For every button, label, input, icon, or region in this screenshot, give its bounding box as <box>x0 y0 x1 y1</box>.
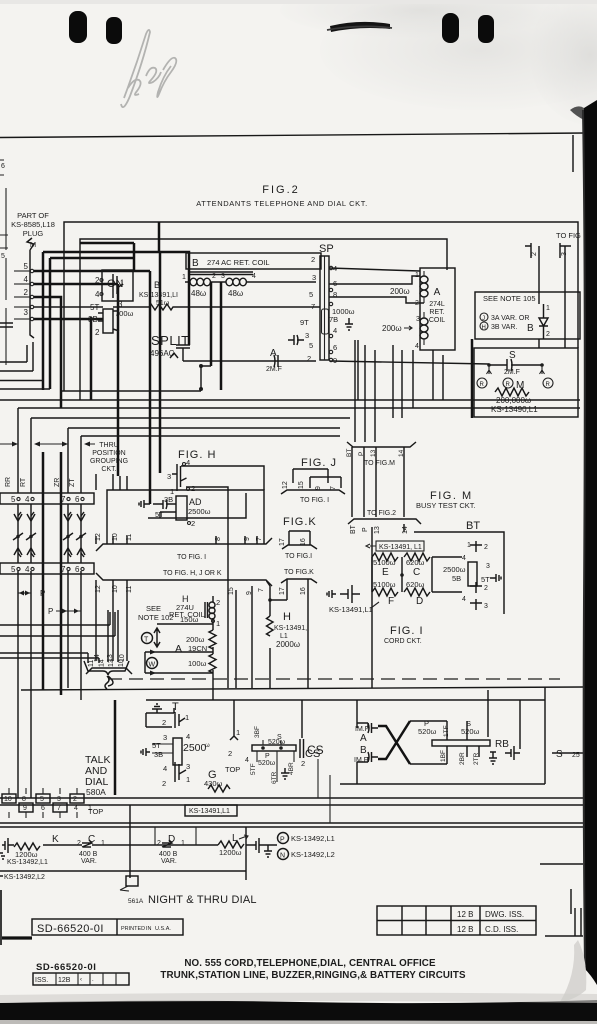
svg-text:15: 15 <box>298 481 305 489</box>
relay AD <box>176 496 187 520</box>
svg-text:1TF: 1TF <box>443 725 450 737</box>
wire: dashed separator <box>108 678 560 680</box>
svg-text:KS-13491,LI: KS-13491,LI <box>139 292 178 299</box>
svg-text:1: 1 <box>546 305 550 312</box>
svg-text:400 B: 400 B <box>159 851 178 858</box>
circle N KS-13492,L2 <box>278 849 289 860</box>
wire: bracket pin2 down <box>538 246 540 304</box>
svg-text:SD-66520-0I: SD-66520-0I <box>36 962 96 973</box>
svg-text:1BF: 1BF <box>440 750 447 762</box>
connector strip 2 <box>0 563 94 574</box>
wire verticals dropping from fig2 <box>357 340 359 400</box>
svg-text:S: S <box>556 749 563 760</box>
svg-text:‹: ‹ <box>80 977 82 983</box>
svg-text:4: 4 <box>252 273 256 280</box>
svg-text:2: 2 <box>311 255 315 264</box>
svg-text:12B: 12B <box>58 977 71 984</box>
svg-text:12 B: 12 B <box>457 910 473 919</box>
svg-text:KS-13492,L2: KS-13492,L2 <box>4 874 45 881</box>
arrow to thru position <box>0 443 95 445</box>
svg-text:7: 7 <box>61 495 66 504</box>
svg-text:1200ω: 1200ω <box>15 850 38 859</box>
wire: plug pin5 right <box>34 271 150 504</box>
svg-text:13: 13 <box>374 526 381 534</box>
svg-text:KS-13490,L1: KS-13490,L1 <box>491 405 538 414</box>
svg-text:100ω: 100ω <box>188 659 207 668</box>
battery right of RB <box>505 700 520 760</box>
inductor A winding2 vertical <box>424 318 428 339</box>
svg-text:1: 1 <box>182 274 186 281</box>
svg-text:2M.F: 2M.F <box>266 366 282 373</box>
svg-text:ATTENDANTS TELEPHONE AND DI: ATTENDANTS TELEPHONE AND DIAL CKT. <box>196 199 368 208</box>
svg-text:5B: 5B <box>452 574 461 583</box>
svg-text:2500ω: 2500ω <box>188 507 211 516</box>
wire H pin1 left <box>157 618 213 630</box>
svg-text:4: 4 <box>163 764 167 773</box>
svg-text:2: 2 <box>73 796 77 803</box>
svg-text:FIG. I: FIG. I <box>390 625 424 637</box>
wire: staircase corner 2 <box>50 258 134 389</box>
svg-text:3: 3 <box>163 733 167 742</box>
svg-text:H: H <box>283 611 291 623</box>
battery K L1 <box>2 838 14 853</box>
ground RB <box>489 752 497 764</box>
svg-text:2: 2 <box>546 331 550 338</box>
svg-text:14: 14 <box>94 654 101 662</box>
connector TO FIG.M bracket <box>347 442 416 457</box>
resistor M 200000 <box>495 388 529 396</box>
ground K <box>0 853 5 859</box>
contact T <box>146 708 185 728</box>
svg-text:DWG. ISS.: DWG. ISS. <box>485 910 524 919</box>
svg-text:48ω: 48ω <box>191 289 206 298</box>
svg-text:FIG. H: FIG. H <box>178 449 216 461</box>
svg-text:PLUG: PLUG <box>23 229 44 238</box>
svg-text:7: 7 <box>311 302 315 311</box>
svg-text:RT: RT <box>20 477 27 487</box>
svg-text:2: 2 <box>77 840 81 847</box>
jack wire ZR <box>67 504 69 688</box>
svg-text:7: 7 <box>57 805 61 812</box>
wire: feed coil box <box>134 222 189 473</box>
svg-text:KS-13491,: KS-13491, <box>274 625 307 632</box>
wire: bus drops into FIG H box <box>96 474 127 490</box>
svg-text:U.S.A.: U.S.A. <box>155 926 171 932</box>
wire CS vertical <box>318 759 330 823</box>
box SEE NOTE 105 <box>475 292 580 339</box>
svg-text:B: B <box>154 280 160 290</box>
svg-text:3BF: 3BF <box>254 726 261 738</box>
connector: plug bracket <box>27 238 34 338</box>
svg-text:A: A <box>360 733 367 744</box>
svg-text:T: T <box>144 637 149 644</box>
svg-text:15: 15 <box>228 587 235 595</box>
svg-text:2000ω: 2000ω <box>276 640 300 649</box>
inductor core bars <box>189 272 253 275</box>
junction dots <box>199 364 203 368</box>
connector fig M top <box>348 519 421 524</box>
coil A 274L RET COIL box <box>420 268 455 350</box>
svg-text:K: K <box>52 834 59 845</box>
wire: fig M to bottom <box>371 527 373 688</box>
svg-text:3: 3 <box>484 603 488 610</box>
svg-text:4: 4 <box>462 596 466 603</box>
svg-text:200ω: 200ω <box>382 324 402 333</box>
ground at AD <box>139 500 150 508</box>
wire: stub at top right <box>572 135 574 172</box>
svg-text:SPLIT: SPLIT <box>151 333 190 348</box>
svg-text:CKT.: CKT. <box>101 466 116 473</box>
svg-text:NIGHT & THRU DIAL: NIGHT & THRU DIAL <box>148 894 257 906</box>
svg-text:200ω: 200ω <box>186 635 205 644</box>
wire: plug pin4 right down <box>34 284 118 476</box>
svg-text:3: 3 <box>486 563 490 570</box>
svg-text:3B: 3B <box>154 750 163 759</box>
svg-text:NO. 555 CORD,TELEPHONE,DIAL, C: NO. 555 CORD,TELEPHONE,DIAL, CENTRAL OFF… <box>184 958 436 969</box>
svg-text:VAR.: VAR. <box>81 858 97 865</box>
svg-text:TRUNK,STATION LINE, BUZZER,RIN: TRUNK,STATION LINE, BUZZER,RINGING,& BAT… <box>160 970 466 981</box>
svg-text:P: P <box>48 607 53 616</box>
boxed label KS-13491,L1 <box>185 805 237 816</box>
wire: staircase corner 1 <box>43 252 134 690</box>
svg-text:3: 3 <box>167 472 171 481</box>
ground at 2500 <box>141 748 150 756</box>
wire AD to box <box>148 493 246 518</box>
svg-text:200ω: 200ω <box>390 287 410 296</box>
capacitor near SP <box>288 335 304 345</box>
flat resistor 520 P S <box>252 745 296 751</box>
svg-text:PRINTED: PRINTED <box>121 926 145 932</box>
wire left drop to 580A <box>114 700 117 795</box>
svg-text:13: 13 <box>370 449 377 457</box>
svg-text:2: 2 <box>484 585 488 592</box>
svg-text:AD: AD <box>189 497 202 507</box>
svg-text:520ω: 520ω <box>418 727 437 736</box>
svg-text:6: 6 <box>75 495 80 504</box>
svg-text:520ω: 520ω <box>268 739 286 746</box>
pin 1 <box>14 306 30 308</box>
svg-text:5T: 5T <box>152 741 161 750</box>
svg-text:520ω: 520ω <box>258 760 276 767</box>
svg-text:14: 14 <box>398 449 405 457</box>
svg-text:3: 3 <box>221 273 225 280</box>
svg-text:VAR.: VAR. <box>161 858 177 865</box>
svg-text:6: 6 <box>333 343 337 352</box>
svg-text:4: 4 <box>415 343 419 350</box>
svg-text:P: P <box>358 452 365 456</box>
svg-text:A: A <box>434 287 441 298</box>
svg-text:8: 8 <box>22 796 26 803</box>
svg-text:5: 5 <box>11 495 16 504</box>
svg-text:IN: IN <box>146 926 152 932</box>
wire: feed to ON <box>80 243 134 271</box>
varistor diode <box>539 318 548 326</box>
battery and ground left <box>340 585 360 603</box>
svg-text:SEE: SEE <box>146 604 161 613</box>
connector fig H bottom bracket <box>96 538 272 551</box>
svg-text:5T: 5T <box>90 303 99 312</box>
svg-text:RET.: RET. <box>429 309 444 316</box>
jack wire ZT <box>80 504 82 700</box>
binder hole 3 <box>442 13 459 43</box>
svg-text:2: 2 <box>162 718 166 727</box>
svg-text:5100ω: 5100ω <box>373 558 396 567</box>
svg-text:FIG.2: FIG.2 <box>262 184 300 196</box>
svg-text:CS: CS <box>305 748 320 760</box>
svg-text:P: P <box>265 753 270 760</box>
svg-text:E: E <box>382 567 389 578</box>
svg-text:N: N <box>280 853 285 860</box>
svg-text:POSITION: POSITION <box>92 450 125 457</box>
meter W circle <box>147 658 158 669</box>
svg-text:580A: 580A <box>86 787 106 797</box>
svg-text:TOP: TOP <box>88 807 103 816</box>
svg-text:TO FIG.M: TO FIG.M <box>364 460 395 467</box>
meter circles R M R R <box>487 365 545 374</box>
svg-text:FIG. J: FIG. J <box>301 457 337 469</box>
svg-text:5: 5 <box>1 253 5 260</box>
SP pin circles <box>329 266 332 269</box>
SD-66520-01 box <box>32 919 183 935</box>
svg-text:KS-13492,L1: KS-13492,L1 <box>7 859 48 866</box>
svg-text:3B: 3B <box>164 495 173 504</box>
spring contacts row3 <box>14 548 85 557</box>
svg-text:3: 3 <box>416 316 420 323</box>
svg-text:3B VAR.: 3B VAR. <box>491 324 517 331</box>
svg-text:1: 1 <box>216 619 220 628</box>
svg-text:2: 2 <box>228 749 232 758</box>
relay SP contact column <box>320 256 329 360</box>
svg-text:BT: BT <box>350 524 357 534</box>
ground small at 4BR <box>281 768 289 779</box>
svg-text:7: 7 <box>258 588 265 592</box>
svg-text:2500ω: 2500ω <box>443 565 466 574</box>
svg-text:3: 3 <box>118 300 123 309</box>
svg-text:RB: RB <box>495 739 509 750</box>
svg-text:4: 4 <box>25 495 30 504</box>
svg-text:150ω: 150ω <box>180 615 199 624</box>
svg-text:TO FIG.I: TO FIG.I <box>285 553 312 560</box>
svg-text:4BR: 4BR <box>288 762 295 775</box>
svg-text:5T: 5T <box>481 575 490 584</box>
wire: plug pin3 <box>34 318 103 321</box>
svg-text:2: 2 <box>95 328 100 337</box>
svg-text:ω: ω <box>205 743 210 749</box>
svg-text:5: 5 <box>309 341 313 350</box>
svg-text:TO FIG.2: TO FIG.2 <box>367 510 396 517</box>
svg-text:4: 4 <box>333 326 337 335</box>
capacitor at AD <box>153 500 176 509</box>
jack wire RT <box>30 504 32 798</box>
inductor winding 1 <box>190 278 210 282</box>
binder hole 4 <box>478 15 494 43</box>
connector fig J <box>293 469 341 488</box>
svg-text:5: 5 <box>24 262 29 271</box>
svg-text:4: 4 <box>24 275 29 284</box>
svg-text:L1: L1 <box>280 633 288 640</box>
ink streak top middle <box>330 22 390 32</box>
left edge marks <box>0 890 2 945</box>
svg-text:2: 2 <box>191 484 195 493</box>
svg-text:1: 1 <box>181 840 185 847</box>
svg-text:W: W <box>149 662 156 669</box>
svg-text:13: 13 <box>107 654 114 662</box>
svg-text:TO FIG.K: TO FIG.K <box>284 569 314 576</box>
svg-text:GROUPING: GROUPING <box>90 458 128 465</box>
resistor E 5100 <box>372 553 398 561</box>
svg-text:4: 4 <box>462 555 466 562</box>
wire: plug pin2 <box>34 297 61 695</box>
svg-text:4: 4 <box>74 805 78 812</box>
svg-text:KS-13492,L2: KS-13492,L2 <box>291 850 335 859</box>
coil B box 274 AC RET COIL <box>186 253 321 269</box>
wire fig H contact right <box>181 466 264 490</box>
svg-text:1: 1 <box>185 713 189 722</box>
svg-text:T: T <box>172 701 179 713</box>
svg-text:ISS.: ISS. <box>35 977 48 984</box>
svg-text:6: 6 <box>1 163 5 170</box>
thick verticals coil pins down <box>210 282 213 366</box>
svg-text:1200ω: 1200ω <box>219 848 242 857</box>
svg-text:COIL: COIL <box>429 317 445 324</box>
svg-text:P: P <box>40 589 45 598</box>
svg-text:CORD CKT.: CORD CKT. <box>384 638 422 645</box>
svg-text:5: 5 <box>309 290 313 299</box>
svg-text:TO FIG. I: TO FIG. I <box>177 554 206 561</box>
svg-text:IM.F: IM.F <box>354 757 368 764</box>
wire bottom left <box>0 936 32 939</box>
svg-text:KS-13491,L1: KS-13491,L1 <box>189 808 230 815</box>
issue table <box>377 906 536 935</box>
svg-text:48ω: 48ω <box>228 289 243 298</box>
svg-text:D: D <box>416 596 423 607</box>
svg-text:14: 14 <box>402 526 409 534</box>
inductor A winding1 vertical <box>424 276 428 297</box>
circle P KS-13492,L1 <box>278 833 289 844</box>
wire A loop <box>145 652 213 673</box>
svg-text:7B: 7B <box>329 315 338 324</box>
svg-text:BUSY TEST CKT.: BUSY TEST CKT. <box>416 501 476 510</box>
svg-text:2: 2 <box>307 354 311 363</box>
svg-text:SEE NOTE 105: SEE NOTE 105 <box>483 294 536 303</box>
contact SPLIT <box>170 345 190 361</box>
svg-text:2: 2 <box>191 519 195 528</box>
svg-text:3: 3 <box>305 331 309 340</box>
svg-text:KS-13492,L1: KS-13492,L1 <box>291 834 335 843</box>
svg-text:2BR: 2BR <box>459 752 466 765</box>
battery row2 <box>0 875 3 877</box>
ground fig M <box>490 574 501 582</box>
wire: bus lines y798 805 <box>0 798 583 805</box>
svg-text:B: B <box>527 323 534 334</box>
svg-text:H: H <box>482 325 486 331</box>
wire X cross <box>378 721 410 764</box>
inductor H vertical <box>205 602 208 618</box>
svg-text:ZR: ZR <box>54 478 61 487</box>
wire: nested bottom lines <box>0 342 50 389</box>
svg-text:BT: BT <box>466 520 480 532</box>
svg-text:6: 6 <box>41 805 45 812</box>
wire coil A pins <box>423 271 425 345</box>
svg-text:10: 10 <box>119 654 126 662</box>
svg-text:KS-13491,L1: KS-13491,L1 <box>329 605 373 614</box>
svg-text:5: 5 <box>11 565 16 574</box>
svg-text:2: 2 <box>24 288 29 297</box>
fig H box outline <box>107 490 264 544</box>
svg-text:J: J <box>482 316 485 322</box>
wire: E C D F verticals <box>372 557 462 592</box>
svg-text:2: 2 <box>95 276 100 285</box>
svg-text:2M.F: 2M.F <box>504 369 520 376</box>
svg-text:B: B <box>192 258 199 269</box>
connector strip 1 <box>0 493 94 504</box>
wire: outer loop <box>64 222 578 391</box>
svg-text:S: S <box>509 350 516 361</box>
svg-text:1: 1 <box>120 280 124 287</box>
wire: H branch <box>236 581 287 688</box>
ground at SP <box>345 318 353 330</box>
svg-text:5: 5 <box>40 796 44 803</box>
wire right stubs <box>540 687 583 914</box>
svg-text:12: 12 <box>282 481 289 489</box>
wire: left edge stubs <box>0 323 13 327</box>
inductor winding 2 <box>226 278 246 282</box>
svg-text:2TR: 2TR <box>473 752 480 765</box>
spring contacts row1 <box>14 512 85 521</box>
svg-text:6: 6 <box>75 565 80 574</box>
wire: bus into S box <box>330 361 489 364</box>
svg-text:7: 7 <box>61 565 66 574</box>
boxed label KS-13491 L1 <box>376 541 424 551</box>
svg-text:3A VAR. OR: 3A VAR. OR <box>491 315 529 322</box>
svg-text:10: 10 <box>4 796 12 803</box>
svg-text:P: P <box>362 527 369 532</box>
svg-text:2: 2 <box>531 252 538 256</box>
svg-text:3: 3 <box>57 796 61 803</box>
svg-text:1: 1 <box>236 728 240 737</box>
wire: bracket pin3 down <box>564 246 566 331</box>
binder hole 1 <box>69 11 87 43</box>
box S / M meter <box>474 348 578 417</box>
svg-text:620ω: 620ω <box>406 558 425 567</box>
wire: lower box top <box>146 699 545 701</box>
capacitor S <box>489 359 542 371</box>
meter T circle <box>142 633 153 644</box>
wire: bus lines y823 826 <box>0 823 583 827</box>
svg-text:KS-8585,L18: KS-8585,L18 <box>11 220 55 229</box>
svg-text:2: 2 <box>157 840 161 847</box>
wire: top rule line <box>0 133 585 138</box>
wire: plug pin1 <box>34 306 103 308</box>
svg-text:5TF: 5TF <box>250 763 257 775</box>
svg-text:ZT: ZT <box>69 478 76 487</box>
svg-text:3: 3 <box>312 273 316 282</box>
pencil Dup handwriting <box>121 30 176 107</box>
svg-text:9: 9 <box>23 805 27 812</box>
ISS 12B strip <box>33 973 129 985</box>
svg-text:1: 1 <box>101 840 105 847</box>
svg-text:4: 4 <box>186 732 190 741</box>
svg-text:RR: RR <box>5 477 12 487</box>
svg-text:2: 2 <box>212 273 216 280</box>
svg-text:2500: 2500 <box>183 742 207 754</box>
svg-text:2: 2 <box>484 544 488 551</box>
svg-text:TOP: TOP <box>225 765 240 774</box>
spring contacts row2 dots <box>13 533 86 540</box>
relay ON box <box>102 270 133 301</box>
thick vertical from coil box <box>188 271 191 345</box>
svg-text:12 B: 12 B <box>457 925 473 934</box>
